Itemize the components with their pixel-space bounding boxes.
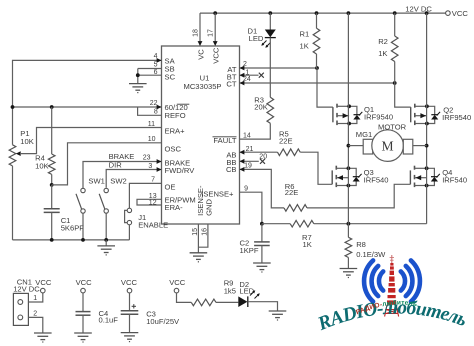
diode D2 LED [238,280,259,307]
svg-text:10K: 10K [35,162,49,171]
node junction R4 top/REFO wire [50,105,54,109]
U1 pin label BRAKE [165,158,191,167]
node junction CT/R2/Q2 gate [393,81,397,85]
pin number 4 [154,53,158,60]
transistor Q2 IRF9540 [411,104,472,126]
jumper J1 ENABLE [125,208,169,240]
svg-text:VCC: VCC [76,278,93,287]
node junction rail/pin17 [213,11,217,15]
svg-text:21: 21 [246,146,254,153]
svg-text:16: 16 [202,228,209,236]
node junction motor right [425,144,429,148]
svg-text:VCC: VCC [212,47,221,64]
U1 pin label OSC [165,145,182,154]
svg-text:1KPF: 1KPF [240,246,259,255]
svg-text:17: 17 [208,29,215,37]
ground symbol D2 [269,311,287,320]
wire Q1 gate from AT node [317,68,333,107]
resistor R1 1K [300,13,320,68]
svg-text:11: 11 [148,121,155,128]
U1 pin label CT [226,80,236,89]
U1 pin label FAULT with overline [213,136,237,145]
logo radio waves [364,260,420,301]
node junction left bus/REFO wire [11,105,15,109]
svg-text:IRF540: IRF540 [442,176,467,185]
capacitor C2 1KPF [240,224,270,263]
wire BRAKE pin 23 to SW1 [83,152,162,188]
ground symbol SB/SC [129,84,147,93]
svg-text:14: 14 [243,132,251,139]
wire SC tie [138,69,162,76]
U1 pin label ISENSE+ [201,190,234,199]
U1 pin label ERA+ [165,127,186,136]
x-mark pin 20 [260,159,265,164]
wire sense rail [262,223,427,225]
svg-text:R2: R2 [378,37,388,46]
wire R6 to Q4 gate [307,184,411,208]
svg-text:R1: R1 [300,29,310,38]
svg-text:IRF540: IRF540 [364,176,389,185]
svg-text:ERA+: ERA+ [165,127,186,136]
node junction motor left [347,144,351,148]
capacitor C3 10uF/25V [121,278,180,333]
svg-text:22: 22 [150,100,158,107]
wire CT pin 24 to R2 bottom [240,76,395,85]
svg-text:0.1E/3W: 0.1E/3W [356,250,386,259]
logo small arc text [355,299,418,317]
svg-text:0.1uF: 0.1uF [99,316,119,325]
svg-text:10K: 10K [20,137,34,146]
resistor R3 20K [254,38,273,124]
U1 pin label SA [165,57,176,66]
svg-text:1K: 1K [303,240,312,249]
svg-text:2: 2 [33,310,37,317]
svg-text:IRF9540: IRF9540 [442,113,471,122]
wire DIR pin 3 to SW2 [106,160,161,188]
wire BB pin 20 unconnected [240,154,268,164]
node junction R8/sense rail [347,222,351,226]
switch SW1 [76,177,105,240]
svg-text:MOTOR: MOTOR [378,123,407,132]
svg-text:9: 9 [244,186,248,193]
ground symbol under U1 [190,253,208,262]
svg-text:LED: LED [239,287,254,296]
svg-text:IRF9540: IRF9540 [364,112,393,121]
wire R5 to Q3 gate [300,152,332,184]
wire stub ground rail [105,240,107,246]
svg-text:20K: 20K [254,102,268,111]
svg-text:8: 8 [154,109,158,116]
svg-text:1k5: 1k5 [224,286,236,295]
node junction rail/Q2 source [425,11,429,15]
node junction AT/R1/Q1 gate [315,66,319,70]
ground symbol under SW2 [97,246,115,255]
node junction rail/R2 [393,11,397,15]
svg-text:FAULT: FAULT [213,136,236,145]
U1 pin label 60/120 with overline [165,103,190,112]
x-mark pin 1 [259,73,264,78]
svg-text:REFO: REFO [165,111,186,120]
svg-text:GND: GND [204,199,213,216]
wire AB pin 21 lead [240,146,278,155]
svg-text:SC: SC [165,73,176,82]
wire left vertical bus to SA [13,58,162,145]
svg-text:M: M [382,139,394,154]
svg-text:10: 10 [148,136,156,143]
wire Q2 gate from CT node [395,83,411,107]
U1 pin label AB [226,151,236,160]
svg-text:OE: OE [165,183,176,192]
wire CB pin 19 to R6 [240,163,285,208]
svg-text:1K: 1K [300,42,309,51]
potentiometer P1 10K [9,129,34,240]
svg-text:VCC: VCC [169,278,186,287]
svg-text:LED: LED [249,34,264,43]
svg-text:12: 12 [149,200,157,207]
U1 pin label REFO [165,111,186,120]
U1 pin label SC [165,73,176,82]
ground symbol CN1 [34,333,52,342]
wire +12V rail from pin18 drop to VCC terminal [200,12,446,14]
resistor R5 22E [278,130,301,156]
svg-text:1: 1 [33,295,37,302]
U1 pin label OE [165,183,176,192]
svg-text:VCC: VCC [35,278,52,287]
svg-text:23: 23 [143,155,151,162]
wire FAULT pin 14 to R3/D1 [240,123,271,139]
ground symbol under R8 [340,269,358,278]
terminal VCC for CN1 pin 1 [28,278,51,302]
svg-text:VC: VC [197,49,206,60]
diode D1 LED [248,13,276,48]
U1 pin label ISENSE- (rotated) [196,185,205,216]
wire U1 pin 18 VC [193,13,203,46]
node junction rail/Q1 source [347,11,351,15]
wire U1 pin 15 ISENSE- to ground [192,224,199,253]
svg-text:ENABLE: ENABLE [138,221,168,230]
svg-text:ISENSE+: ISENSE+ [201,190,234,199]
svg-text:7: 7 [151,177,155,184]
wire AT pin 2 to R1 bottom [240,61,318,70]
wire ERA+ pin 11 to P1 wiper [16,121,162,156]
svg-text:18: 18 [193,29,200,37]
svg-text:MC33035P: MC33035P [184,82,222,91]
node junction pin9/C2/R7 [260,222,264,226]
svg-text:MG1: MG1 [356,130,372,139]
label 12V DC [405,5,432,14]
wire U1 pin 17 VCC [208,13,218,46]
svg-text:FWD/RV: FWD/RV [165,166,196,175]
wire SB/SC to ground [136,69,140,84]
ground symbol C3 [121,333,139,342]
U1 pin label VC (rotated) [197,49,206,60]
terminal VCC top right [446,9,469,18]
svg-text:22E: 22E [279,137,293,146]
svg-text:4: 4 [154,53,158,60]
svg-text:R8: R8 [356,240,366,249]
node junction rail/D1 [268,11,272,15]
resistor R8 0.1E/3W [345,224,386,269]
ground symbol under C2 [253,263,271,272]
wire D2 cathode to ground [248,302,278,311]
svg-text:VCC: VCC [121,278,138,287]
wire CN1 pin 2 to ground [28,310,42,333]
transistor Q1 IRF9540 [333,104,393,126]
svg-text:OSC: OSC [165,145,182,154]
U1 pin label CB [226,165,237,174]
U1 pin label VCC (rotated) [212,47,221,64]
transistor Q4 IRF540 [410,166,467,188]
svg-text:VCC: VCC [452,9,469,18]
svg-text:SW2: SW2 [110,177,126,186]
svg-text:ERA-: ERA- [165,203,184,212]
wire OE pin 7 to J1 [129,177,161,209]
svg-text:24: 24 [243,76,251,83]
wire REFO net P1/R4 to pins 22/8 [13,100,162,115]
U1 pin label FWD/RV [165,166,196,175]
wire BT pin 1 unconnected [240,69,259,77]
node junction R4 bottom / OSC branch [50,183,54,187]
svg-text:SW1: SW1 [88,177,104,186]
svg-text:10uF/25V: 10uF/25V [146,317,180,326]
U1 pin label BB [226,158,236,167]
capacitor C4 0.1uF [76,278,119,333]
U1 pin label GND (rotated) [204,199,213,216]
resistor R9 1k5 [169,278,238,306]
svg-text:22E: 22E [285,188,299,197]
U1 pin label AT [227,65,237,74]
svg-text:CT: CT [226,80,236,89]
capacitor C1 5K6PF [44,185,85,240]
op-amp U1 MC33035P body [162,46,240,224]
node junction SW1/ground rail [81,238,85,242]
wire Q2/Q4 column (motor right leg) [426,13,428,224]
ground symbol C4 [74,333,92,342]
motor MG1 [348,123,426,162]
svg-text:3: 3 [148,163,152,170]
U1 pin label BT [227,72,237,81]
svg-text:2: 2 [243,61,247,68]
node junction rail/R1 [315,11,319,15]
transistor Q3 IRF540 [332,166,388,188]
svg-text:12V DC: 12V DC [405,5,432,14]
node junction SW2/ground rail [104,238,108,242]
svg-text:6: 6 [154,69,158,76]
resistor R4 10K [35,107,55,185]
wire Q1/Q3 column (motor left leg) [347,13,349,224]
resistor R2 1K [378,13,398,83]
logo main text RADIO-любитель [314,298,470,336]
U1 pin label ER/PWM [165,196,196,205]
U1 pin label SB [165,65,175,74]
wire SB tie [138,61,162,68]
resistor R7 1K [290,220,314,248]
svg-text:5: 5 [154,61,158,68]
svg-text:5K6PF: 5K6PF [61,224,85,233]
wire OSC pin 10 to R4/C1 node [52,136,162,185]
svg-text:15: 15 [192,228,199,236]
switch SW2 [99,177,127,240]
logo transmitter tower [385,255,399,317]
svg-text:CB: CB [226,165,237,174]
svg-text:1K: 1K [378,49,387,58]
svg-text:DIR: DIR [109,160,123,169]
wire ground rail bottom left [13,239,130,241]
wire ER/PWM pin13 / ERA- pin12 tie [137,193,162,207]
node junction C1/ground rail [50,238,54,242]
wire ISENSE+ pin 9 to sense node [240,186,262,224]
wire U1 pin 16 GND bracket [198,224,208,247]
U1 pin label ERA- [165,203,184,212]
connector CN1 12V DC [13,278,40,326]
resistor R6 22E [284,182,307,211]
svg-text:19: 19 [244,163,252,170]
